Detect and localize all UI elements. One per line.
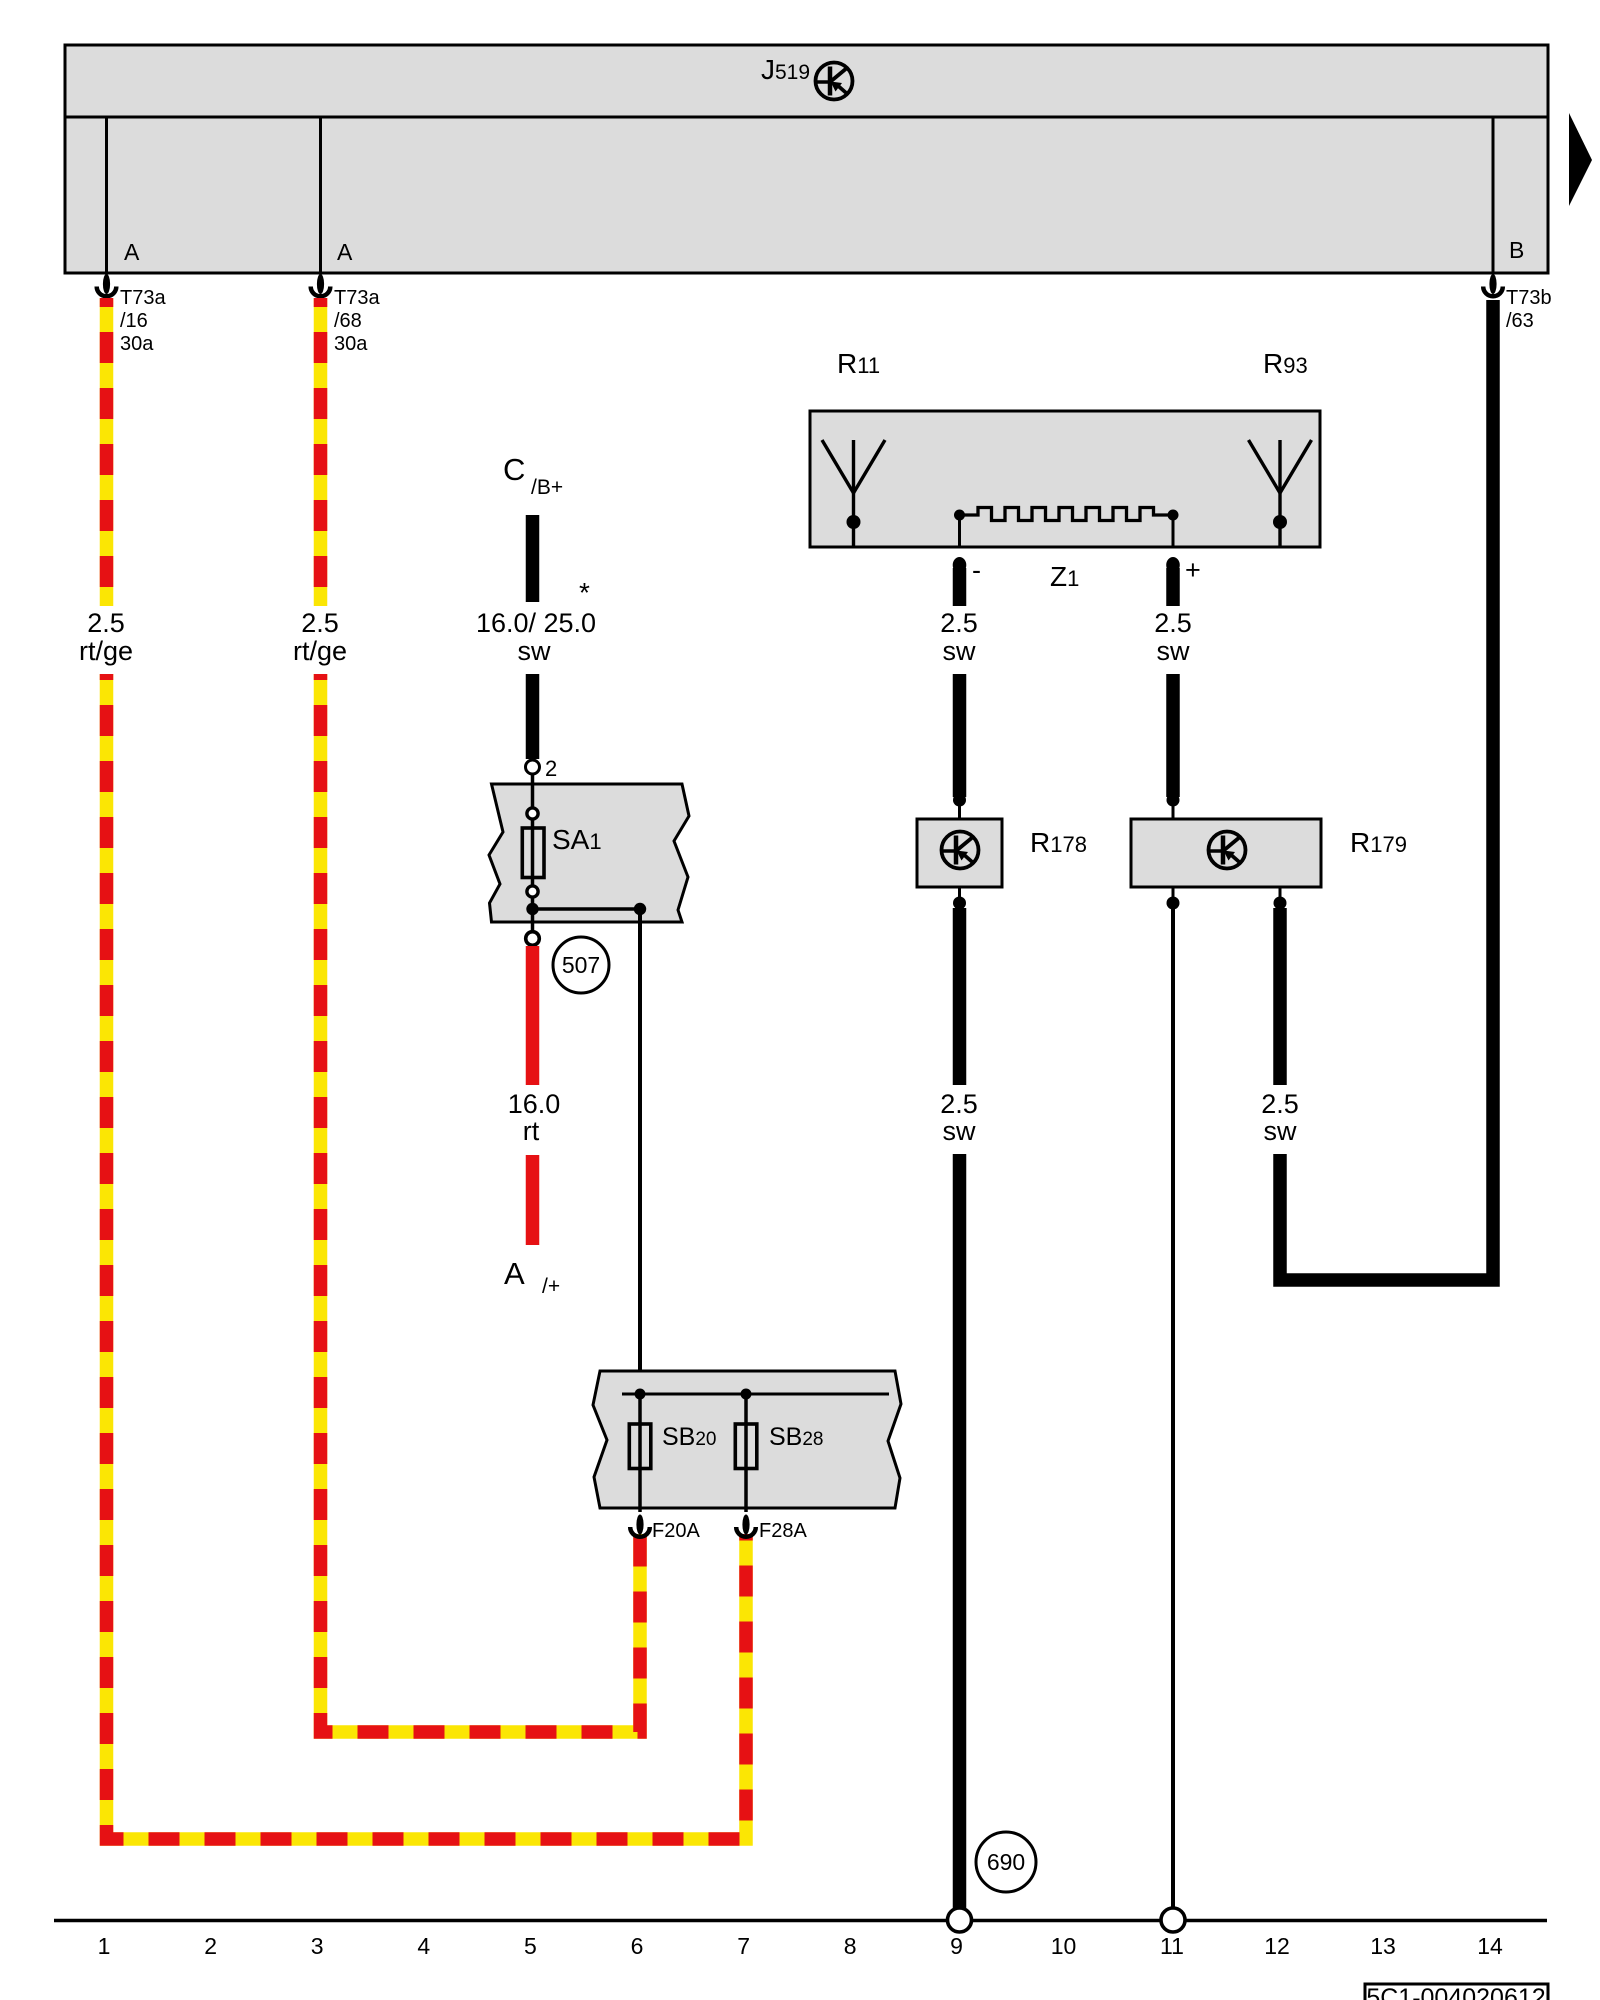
svg-text:F28A: F28A (759, 1520, 807, 1542)
wire sw from R179 right output (1273, 908, 1287, 1085)
svg-text:/16: /16 (120, 310, 148, 332)
wire rt/ge red dashes (100, 298, 114, 606)
wire from fuse to output (531, 897, 535, 931)
wire rt/ge from T73a/16 to F28A (yellow base) (100, 298, 114, 606)
svg-text:A: A (337, 239, 353, 265)
heating element Z1 meander (960, 508, 1174, 521)
junction dot right (634, 903, 646, 915)
svg-text:SA1: SA1 (552, 824, 602, 855)
fuse holder SA1 box (489, 784, 689, 922)
connector T73b/63 (1483, 274, 1503, 296)
svg-text:2.5: 2.5 (940, 608, 978, 638)
wire rt/ge from T73a/68 to F20A (yellow base) (314, 298, 328, 606)
svg-text:T73b: T73b (1506, 287, 1552, 309)
svg-text:sw: sw (1264, 1116, 1298, 1146)
control unit J519 box (65, 45, 1548, 273)
svg-text:A: A (124, 239, 140, 265)
antenna symbol right (R93) (1249, 440, 1312, 547)
svg-text:F20A: F20A (652, 1520, 700, 1542)
svg-text:2: 2 (545, 756, 557, 781)
suppressor R179 box (1131, 819, 1321, 887)
svg-text:11: 11 (1160, 1933, 1184, 1959)
bus junction dot SB20 (635, 1389, 646, 1400)
fuse contact circle top (527, 808, 538, 819)
svg-text:7: 7 (737, 1933, 750, 1959)
svg-text:9: 9 (950, 1933, 963, 1959)
svg-text:Z1: Z1 (1050, 561, 1079, 592)
R179 left output dot (1172, 887, 1175, 910)
svg-text:14: 14 (1477, 1933, 1503, 1959)
junction dot left (526, 903, 538, 915)
svg-text:10: 10 (1051, 1933, 1077, 1959)
Z1 node dot minus (954, 510, 965, 521)
Z1 lead plus inside box (1172, 515, 1175, 547)
wire sw L-run joining T73b/63 wire (1280, 300, 1493, 1280)
svg-text:2.5: 2.5 (301, 608, 339, 638)
wire rt from SA1 to A/+ (526, 946, 540, 1085)
connector F20A (630, 1515, 650, 1537)
R179 right output dot (1279, 887, 1282, 910)
svg-text:12: 12 (1264, 1933, 1290, 1959)
svg-text:1: 1 (98, 1933, 111, 1959)
J519 internal divider line (65, 116, 1548, 119)
svg-text:sw: sw (518, 636, 552, 666)
terminal circle track 9 (948, 1908, 972, 1932)
antenna symbol left (R11) (822, 440, 885, 547)
current flow diagram base line (54, 1919, 1547, 1923)
svg-text:4: 4 (417, 1933, 430, 1959)
junction dot above R179 (1167, 794, 1180, 807)
circuit reference 507 (553, 937, 609, 993)
svg-text:R93: R93 (1263, 348, 1308, 379)
svg-text:sw: sw (943, 1116, 977, 1146)
svg-text:30a: 30a (334, 333, 368, 355)
svg-text:R11: R11 (837, 348, 880, 379)
svg-text:13: 13 (1370, 1933, 1396, 1959)
svg-text:6: 6 (631, 1933, 644, 1959)
svg-text:2.5: 2.5 (87, 608, 125, 638)
junction dot above R178 (953, 794, 966, 807)
connector T73a/16 (97, 274, 117, 296)
bus junction dot SB28 (741, 1389, 752, 1400)
svg-text:30a: 30a (120, 333, 154, 355)
svg-text:2: 2 (204, 1933, 217, 1959)
box pin dot minus (953, 557, 967, 573)
svg-text:B: B (1509, 237, 1524, 263)
SA1 output circle (526, 932, 540, 946)
wire sw from R178 to terminal 9 (953, 908, 967, 1085)
svg-text:C: C (503, 452, 525, 487)
fuse SB28 lead (744, 1394, 748, 1512)
wire sw from Z1 plus to R179 (1166, 568, 1180, 606)
svg-text:T73a: T73a (120, 287, 166, 309)
K symbol in R179 (1209, 832, 1246, 869)
svg-text:rt/ge: rt/ge (79, 636, 133, 666)
svg-text:2.5: 2.5 (1261, 1089, 1299, 1119)
fuse SB20 lead (638, 1394, 642, 1512)
Z1 node dot plus (1168, 510, 1179, 521)
wire pin A (T73a/16) inside J519 (105, 117, 108, 273)
svg-text:sw: sw (943, 636, 977, 666)
circuit reference 690 (976, 1832, 1036, 1892)
svg-text:-: - (972, 555, 981, 585)
svg-text:sw: sw (1157, 636, 1191, 666)
arrow continuation marker (1569, 113, 1592, 206)
Z1 lead minus inside box (958, 515, 961, 547)
wire sw from C (526, 515, 540, 602)
fuse contact circle bottom (527, 886, 538, 897)
suppressor R178 box (917, 819, 1002, 887)
terminal circle pin 2 of SA1 (526, 760, 540, 774)
internal wire to right branch (533, 907, 641, 911)
svg-text:507: 507 (562, 952, 600, 978)
thin wire from R179 to terminal 11 (1171, 903, 1175, 1908)
R178 output junction dot (958, 887, 961, 912)
svg-text:/B+: /B+ (531, 476, 563, 499)
svg-text:5: 5 (524, 1933, 537, 1959)
fuse box SB row (593, 1371, 901, 1508)
svg-text:+: + (1185, 555, 1201, 585)
wire pin B (T73b/63) inside J519 (1492, 117, 1495, 273)
connector F28A (736, 1515, 756, 1537)
wire through fuse (531, 819, 535, 886)
svg-text:690: 690 (987, 1849, 1025, 1875)
svg-text:16.0/ 25.0: 16.0/ 25.0 (476, 608, 596, 638)
fuse SB28 body (735, 1424, 757, 1469)
wire sw from Z1 minus to R178 (953, 568, 967, 606)
wire into SA1 (531, 774, 535, 808)
svg-text:R179: R179 (1350, 827, 1407, 858)
wire from SA1 right branch down to SB fuse box (638, 909, 642, 1424)
svg-text:/+: /+ (542, 1275, 560, 1298)
svg-text:2.5: 2.5 (940, 1089, 978, 1119)
K symbol in R178 (942, 832, 979, 869)
svg-text:rt: rt (523, 1116, 540, 1146)
svg-text:T73a: T73a (334, 287, 380, 309)
svg-text:A: A (504, 1256, 525, 1291)
svg-text:5C1-004020612: 5C1-004020612 (1366, 1984, 1545, 2000)
connector T73a/68 (311, 274, 331, 296)
diagram number box (1365, 1984, 1548, 2000)
svg-text:/63: /63 (1506, 310, 1534, 332)
op-unit symbol K in J519 (816, 63, 853, 100)
internal bus line (622, 1393, 889, 1396)
svg-text:16.0: 16.0 (508, 1089, 561, 1119)
svg-text:R178: R178 (1030, 827, 1087, 858)
svg-text:3: 3 (311, 1933, 324, 1959)
svg-text:8: 8 (844, 1933, 857, 1959)
box pin dot plus (1166, 557, 1180, 573)
wire rt/ge red dashes (314, 298, 328, 606)
terminal circle track 11 (1161, 1908, 1185, 1932)
aerial unit R11/R93 box (810, 411, 1320, 547)
svg-text:2.5: 2.5 (1154, 608, 1192, 638)
fuse SB20 body (629, 1424, 651, 1469)
svg-text:/68: /68 (334, 310, 362, 332)
fuse SA1 body (522, 828, 544, 878)
svg-text:rt/ge: rt/ge (293, 636, 347, 666)
svg-text:*: * (579, 577, 590, 608)
wire pin A (T73a/68) inside J519 (319, 117, 322, 273)
